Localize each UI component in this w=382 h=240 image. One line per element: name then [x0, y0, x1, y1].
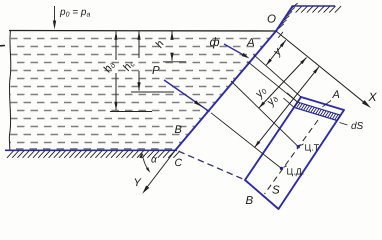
- svg-text:Y: Y: [134, 177, 142, 189]
- svg-text:O: O: [267, 14, 276, 26]
- svg-text:B: B: [175, 124, 182, 136]
- svg-text:X: X: [368, 90, 378, 104]
- svg-text:S: S: [272, 185, 280, 197]
- svg-text:P: P: [152, 65, 160, 77]
- svg-text:ф: ф: [210, 35, 220, 49]
- svg-text:Ц.Д.: Ц.Д.: [287, 167, 305, 177]
- svg-text:Ц.Т: Ц.Т: [305, 143, 320, 153]
- svg-text:A: A: [332, 89, 340, 101]
- svg-text:dS: dS: [351, 121, 364, 132]
- svg-text:B: B: [246, 195, 254, 207]
- svg-text:α: α: [151, 155, 157, 166]
- svg-text:A: A: [246, 37, 255, 49]
- svg-text:C: C: [175, 157, 183, 169]
- svg-text:h: h: [153, 38, 166, 50]
- svg-text:p0 = pa: p0 = pa: [59, 7, 90, 19]
